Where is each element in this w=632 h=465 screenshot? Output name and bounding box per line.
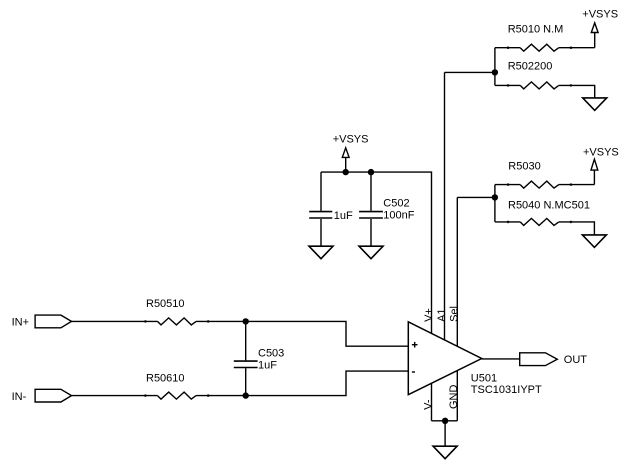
svg-text:+VSYS: +VSYS	[583, 146, 619, 158]
ground (C502)	[359, 246, 383, 259]
wire IN+ to R505	[72, 320, 158, 322]
ground (op-amp)	[433, 446, 457, 459]
capacitor C502	[359, 211, 383, 213]
svg-text:Sel: Sel	[449, 306, 461, 322]
svg-text:R5040 N.MC501: R5040 N.MC501	[508, 199, 590, 211]
wire V-/GND bar	[432, 420, 458, 422]
svg-text:V-: V-	[423, 399, 435, 410]
wire R501/R502 vertical	[494, 48, 496, 86]
wire R506 to op-amp - input	[196, 371, 408, 396]
ground (R502)	[583, 98, 607, 111]
svg-text:IN-: IN-	[12, 391, 27, 403]
resistor R506	[158, 392, 197, 399]
wire R503 left lead	[495, 184, 520, 186]
svg-text:V+: V+	[423, 308, 435, 322]
wire C503 top lead	[245, 321, 247, 360]
capacitor 1uF (bypass)	[309, 211, 332, 213]
junction A1 node	[492, 69, 498, 75]
wire GND pin	[456, 371, 458, 421]
resistor R504	[520, 218, 559, 225]
wire R502 left lead	[495, 84, 520, 86]
wire R503 right lead	[559, 184, 595, 186]
wire op-amp output	[482, 358, 520, 360]
wire IN- to R506	[72, 395, 158, 397]
wire R501 left lead	[495, 47, 520, 49]
svg-text:R5030: R5030	[508, 161, 540, 173]
junction Sel node	[492, 194, 498, 200]
junction on IN- net	[243, 392, 249, 398]
wire A1 vertical to op-amp	[444, 72, 446, 340]
svg-text:C503: C503	[258, 347, 284, 359]
svg-text:C502: C502	[383, 197, 409, 209]
svg-text:R50510: R50510	[146, 298, 185, 310]
svg-text:R50610: R50610	[146, 372, 185, 384]
op-amp - input mark	[412, 371, 415, 373]
wire to ground stem	[444, 421, 446, 446]
wire R505 to op-amp + input	[196, 321, 408, 346]
svg-text:+VSYS: +VSYS	[582, 8, 618, 20]
junction on rail at C502	[368, 169, 374, 175]
svg-text:A1: A1	[436, 308, 448, 321]
port IN-	[35, 389, 71, 402]
resistor R502	[520, 82, 559, 89]
svg-text:TSC1031IYPT: TSC1031IYPT	[471, 384, 542, 396]
ground (R504)	[582, 235, 606, 248]
wire bypass cap 1 bottom lead	[320, 219, 322, 246]
svg-text:1uF: 1uF	[258, 359, 277, 371]
junction on rail at bypass cap 1	[343, 169, 349, 175]
wire bypass cap 1 top lead	[320, 172, 322, 211]
ground (bypass cap 1)	[309, 246, 333, 259]
wire R504 right lead	[559, 222, 595, 235]
svg-text:U501: U501	[471, 373, 497, 385]
port IN+	[35, 315, 71, 328]
svg-text:IN+: IN+	[12, 317, 29, 329]
port OUT	[520, 353, 558, 366]
wire A1 node horizontal	[445, 71, 495, 73]
resistor R505	[158, 318, 197, 325]
op-amp + input mark	[412, 344, 418, 346]
wire R503/R504 vertical	[494, 185, 496, 222]
wire R502 right lead	[559, 85, 595, 98]
capacitor C503	[234, 360, 258, 362]
wire Sel vertical to op-amp	[456, 197, 458, 346]
junction on IN+ net	[243, 318, 249, 324]
svg-text:+VSYS: +VSYS	[333, 134, 369, 146]
wire R501 right lead	[559, 47, 595, 49]
wire Sel node horizontal	[457, 196, 495, 198]
wire R504 left lead	[495, 221, 520, 223]
svg-text:100nF: 100nF	[383, 210, 414, 222]
wire C502 bottom lead	[370, 219, 372, 246]
svg-text:OUT: OUT	[564, 354, 588, 366]
resistor R503	[520, 181, 559, 188]
wire C503 bottom lead	[245, 368, 247, 395]
svg-text:R5010 N.M: R5010 N.M	[508, 24, 564, 36]
wire V- pin	[431, 383, 433, 420]
resistor R501	[520, 44, 559, 51]
junction V-/GND	[442, 418, 448, 424]
svg-text:GND: GND	[448, 385, 460, 410]
wire V+ rail	[321, 172, 432, 334]
resistor pin end marks	[507, 46, 510, 49]
svg-text:R502200: R502200	[508, 61, 553, 73]
wire C502 top lead	[370, 172, 372, 211]
op-amp U501	[408, 322, 481, 395]
svg-text:1uF: 1uF	[334, 210, 353, 222]
